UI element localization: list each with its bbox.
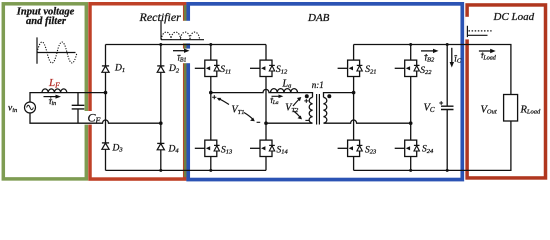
VT2 arrow upper: [293, 99, 299, 106]
overbar for iLa label: [270, 98, 273, 100]
polarity dot secondary: [327, 94, 331, 98]
box: input voltage and filter (green): [3, 4, 86, 179]
mosfet S11: [195, 60, 220, 76]
svg-text:and filter: and filter: [26, 16, 67, 27]
overbar for iB2 label: [424, 55, 428, 57]
diode D3: [102, 143, 109, 149]
wire: rectifier top rail: [106, 44, 267, 46]
junction: input bottom to D2 leg: [159, 121, 163, 125]
wire: DAB secondary leg2 segments: [410, 45, 412, 171]
transformer core: [317, 94, 320, 125]
arrow iB2: [421, 50, 434, 52]
transformer primary winding: [309, 97, 312, 123]
wire: transformer secondary bottom to sec leg2 with hop: [324, 120, 411, 123]
inductor Lf: [42, 89, 67, 93]
box: rectifier (red): [90, 4, 185, 179]
mosfet S21: [338, 60, 363, 76]
mosfet S22: [395, 60, 420, 76]
arrow iB1: [173, 50, 185, 52]
svg-text:n:1: n:1: [312, 80, 324, 90]
polarity dot primary: [305, 94, 309, 98]
junction: leg1 midpoint: [209, 91, 213, 95]
plus sign VT2: [304, 99, 308, 103]
VT1 arrow upper: [219, 99, 230, 105]
wire: transformer secondary top to sec leg1: [324, 93, 354, 98]
arrow iin: [44, 96, 57, 98]
wire: leg D2-D4: [160, 45, 162, 171]
wire: leg D1-D3: [105, 45, 107, 171]
white mask under DC icon: [465, 17, 494, 40]
mosfet S14: [250, 140, 275, 156]
wire: input bottom with hop over D leg: [30, 113, 161, 123]
svg-text:DAB: DAB: [307, 12, 330, 24]
svg-text:DC Load: DC Load: [493, 11, 535, 23]
plus sign VT1: [212, 95, 216, 99]
wire: leg1 midpoint to transformer with hop over leg2: [211, 89, 313, 97]
mosfet S24: [395, 140, 420, 156]
junction dots on rails: [159, 43, 162, 46]
wire: transformer primary bottom to leg2: [266, 122, 313, 124]
minus sign VT2: [305, 119, 309, 121]
diode D2: [157, 66, 164, 72]
plus sign VC: [439, 101, 443, 105]
minus sign VT1: [257, 121, 261, 123]
icon: rectified sine waveform: [161, 20, 204, 39]
arrow iLa: [272, 95, 280, 97]
capacitor Cf: [77, 93, 79, 124]
overbar for iLoad label: [481, 53, 484, 55]
transformer secondary winding: [324, 97, 327, 123]
wire: rectifier bottom rail: [106, 169, 267, 171]
svg-text:Rectifier: Rectifier: [139, 10, 182, 24]
wire: DAB secondary top rail to load: [354, 45, 511, 95]
diode D1: [102, 66, 109, 72]
overbar for iC label: [454, 55, 457, 57]
wire: input top: [30, 93, 106, 102]
junction: sec leg1 midpoint: [352, 91, 356, 95]
box: DAB (blue): [188, 4, 462, 180]
resistor RLoad: [504, 95, 518, 122]
junction: leg2 midpoint: [264, 121, 268, 125]
arrow iLoad: [479, 50, 491, 52]
wire: DAB primary leg2 segments: [265, 45, 267, 171]
VT2 arrow lower: [294, 111, 301, 117]
wire: DAB primary leg1 segments: [210, 45, 212, 171]
olive tint on rectifier/DAB shared edge: [184, 5, 187, 177]
arrow iC: [451, 48, 453, 63]
overbar for iB1 label: [177, 54, 181, 56]
VT1 arrow lower: [244, 113, 253, 120]
mosfet S23: [338, 140, 363, 156]
wire: DAB secondary bottom rail to load: [354, 121, 511, 170]
capacitor VC leg: [446, 45, 448, 171]
icon: AC sine waveform: [37, 37, 77, 63]
junction: input top to D1 leg: [104, 91, 108, 95]
mosfet S13: [195, 140, 220, 156]
diode D4: [157, 143, 164, 149]
junction: sec leg2 midpoint: [409, 121, 413, 125]
source vin: [25, 102, 36, 113]
overbar for iin label: [49, 99, 53, 101]
wire: DAB secondary leg1 segments: [353, 45, 355, 171]
icon: DC waveform: [467, 26, 491, 37]
white mask under iB1 label: [176, 49, 192, 64]
white mask under rectified-sine icon: [155, 21, 206, 44]
box: DC load (dark red): [467, 5, 545, 178]
inductor La: [271, 89, 298, 93]
mosfet S12: [250, 60, 275, 76]
white mask under CF label: [82, 111, 101, 125]
